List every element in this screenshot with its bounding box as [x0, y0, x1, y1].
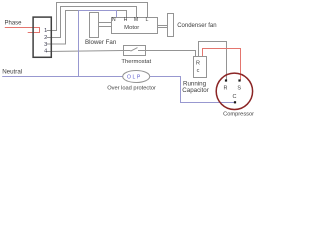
svg-text:OLP: OLP	[127, 75, 142, 81]
svg-text:Motor: Motor	[124, 25, 139, 31]
svg-text:2: 2	[44, 35, 47, 41]
svg-text:R: R	[196, 60, 200, 66]
svg-text:C: C	[233, 94, 237, 100]
svg-text:c: c	[197, 68, 200, 74]
svg-text:Compressor: Compressor	[223, 111, 254, 117]
svg-text:3: 3	[44, 42, 47, 48]
svg-text:H: H	[124, 17, 128, 23]
svg-text:Capacitor: Capacitor	[182, 87, 208, 94]
svg-text:Condenser fan: Condenser fan	[177, 23, 216, 29]
svg-text:Phase: Phase	[5, 21, 23, 27]
svg-text:Thermostat: Thermostat	[121, 59, 151, 65]
svg-text:R: R	[224, 85, 228, 91]
svg-text:S: S	[237, 85, 241, 91]
svg-text:4: 4	[44, 49, 47, 55]
svg-text:1: 1	[44, 28, 47, 34]
svg-text:N: N	[112, 17, 116, 23]
svg-text:Over load protector: Over load protector	[107, 86, 156, 92]
svg-text:Blower Fan: Blower Fan	[85, 39, 117, 46]
svg-text:L: L	[146, 17, 149, 23]
svg-text:M: M	[134, 17, 138, 23]
svg-text:Neutral: Neutral	[2, 69, 22, 76]
